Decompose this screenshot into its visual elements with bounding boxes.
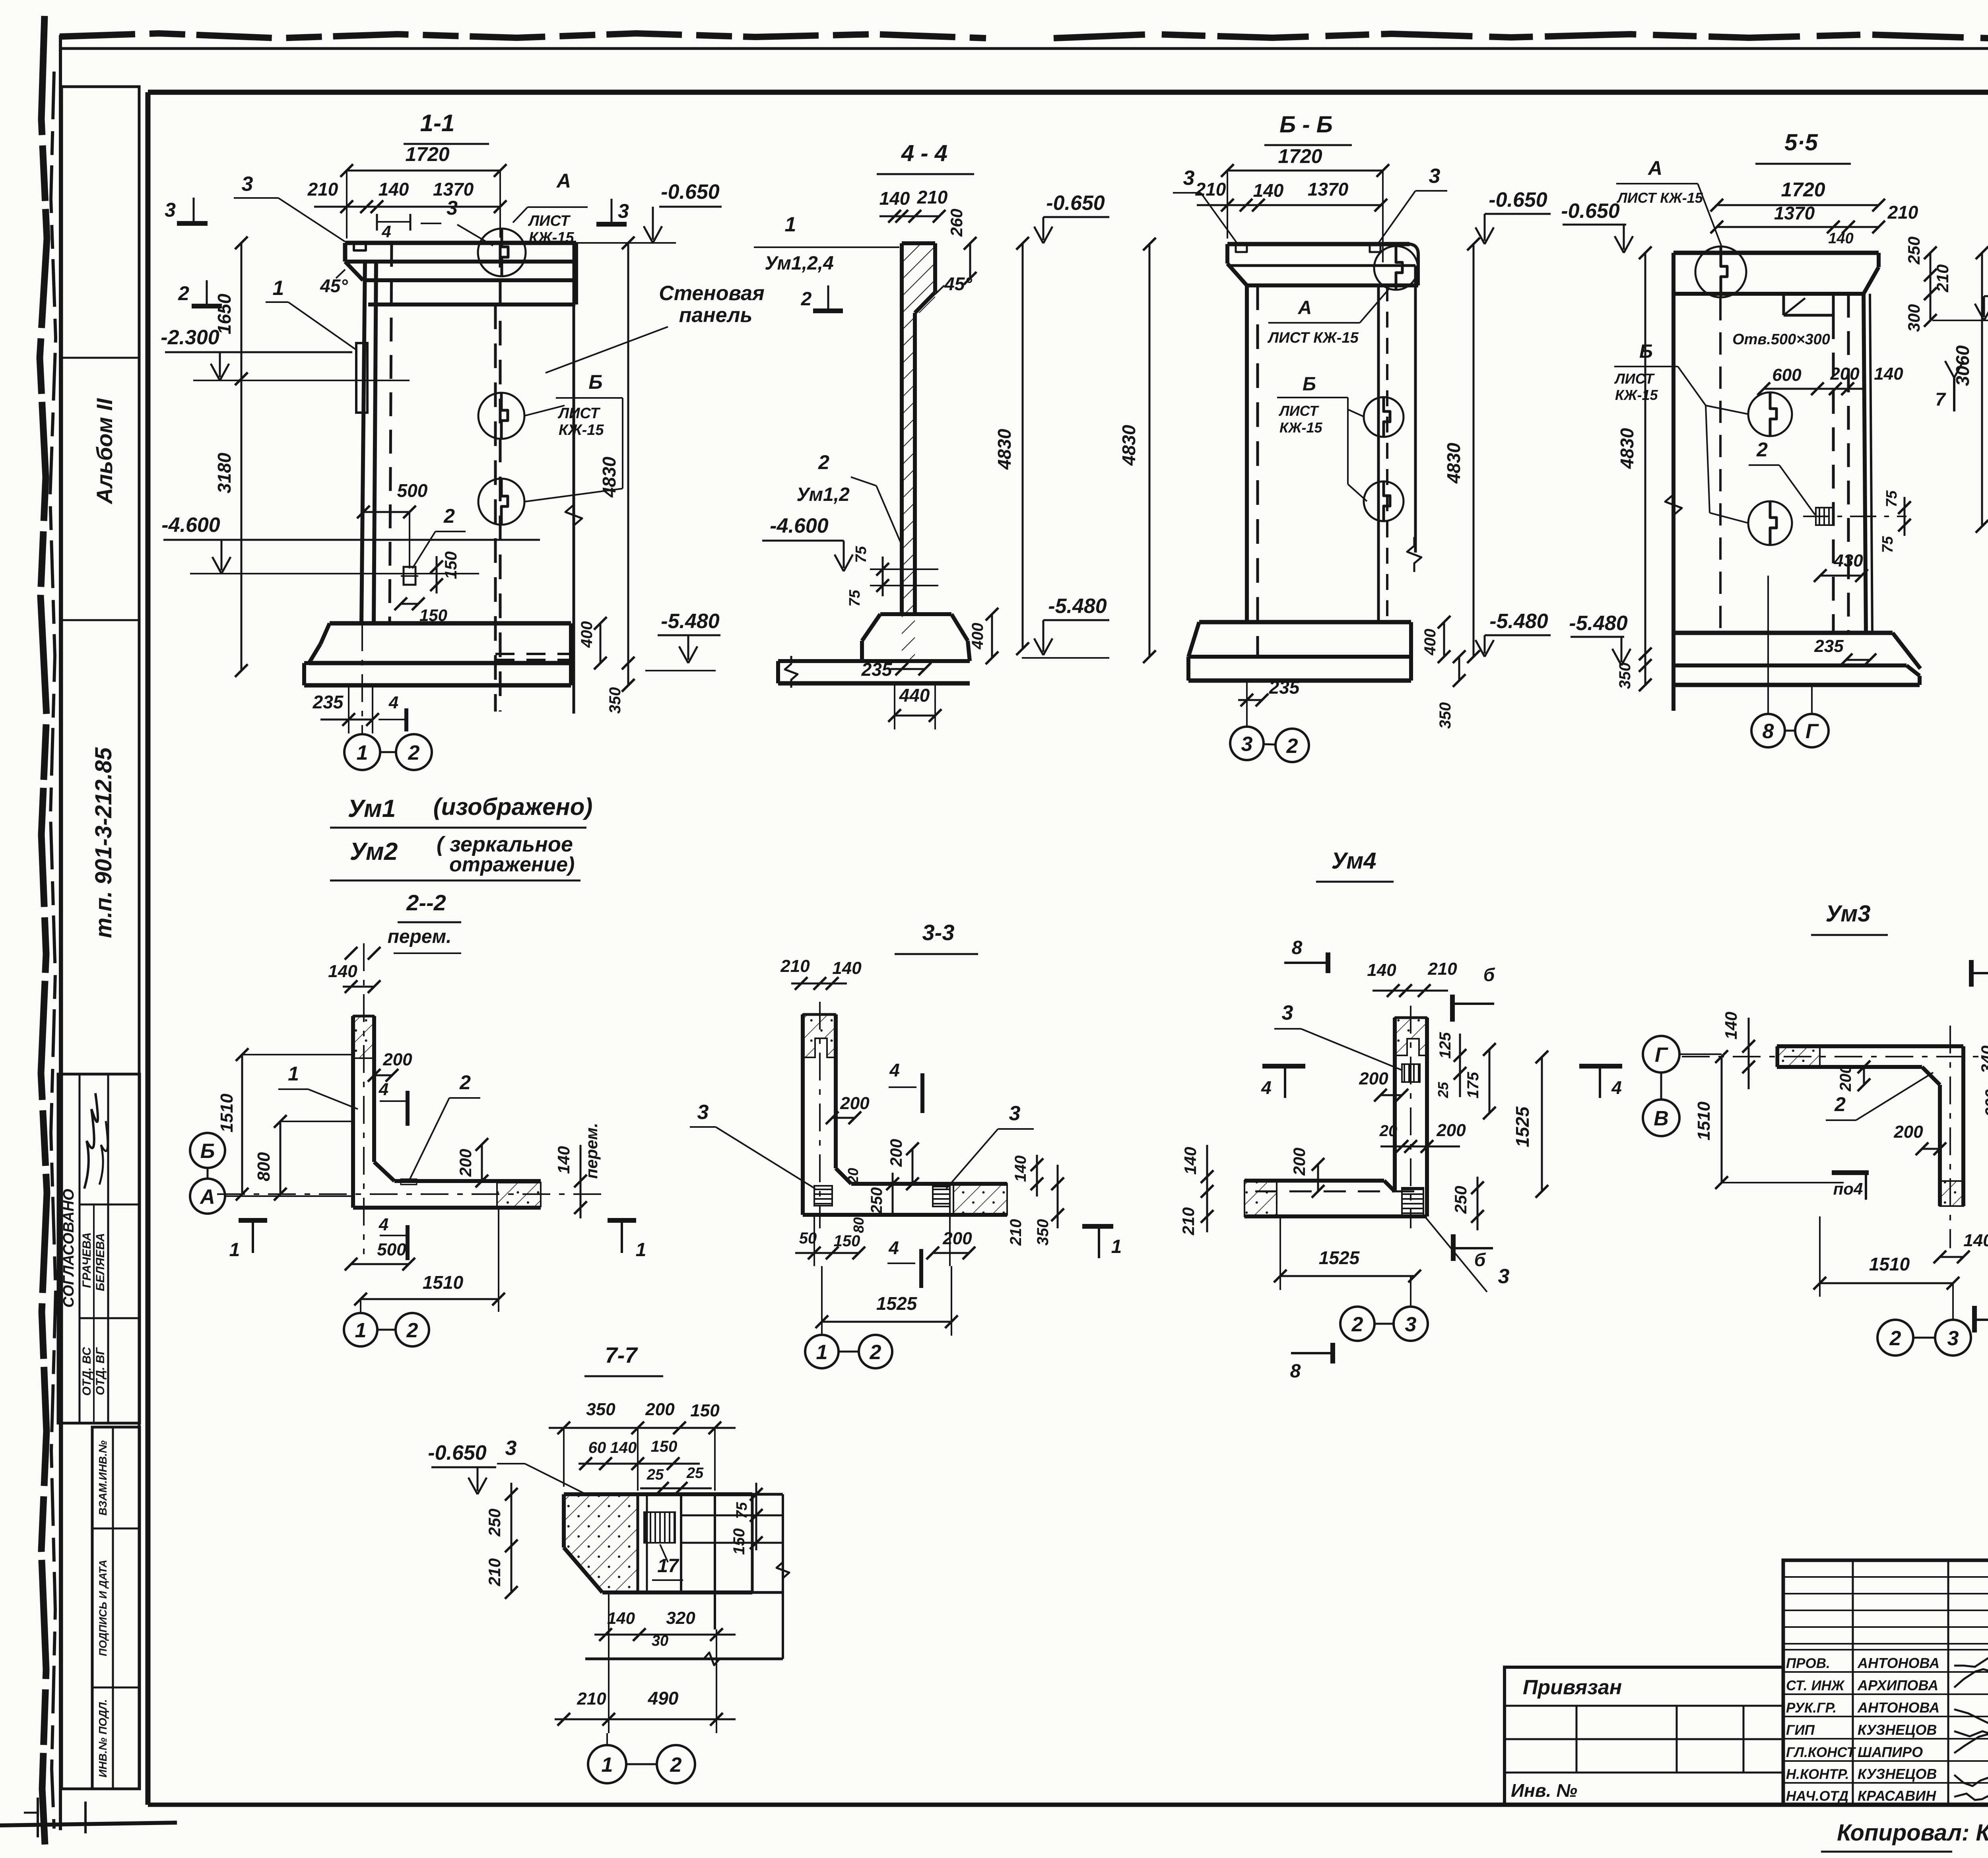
svg-text:ПОДПИСЬ И ДАТА: ПОДПИСЬ И ДАТА: [97, 1560, 109, 1656]
view Um3 right arm verticals: [1940, 1046, 1963, 1206]
view Um4 dim 200 left arm: [1290, 1148, 1324, 1198]
section 1-1 slab outline: [345, 243, 576, 304]
svg-text:60: 60: [588, 1439, 606, 1457]
svg-text:ВЗАМ.ИНВ.№: ВЗАМ.ИНВ.№: [97, 1440, 109, 1515]
section 1-1 dim 235 bottom: [313, 685, 379, 733]
section 5-5 elevation -0.650: [1563, 224, 1626, 226]
svg-text:( зеркальное: ( зеркальное: [437, 832, 573, 856]
svg-text:4830: 4830: [1443, 442, 1464, 484]
svg-text:140: 140: [1722, 1012, 1740, 1040]
title block name rows: [1783, 1650, 1988, 1783]
section B-B dim 4830 left: [1118, 238, 1156, 663]
section B-B callout A label: [1267, 288, 1390, 346]
view Um3 centerlines: [1682, 1026, 1982, 1248]
svg-text:т.п. 901-3-212.85: т.п. 901-3-212.85: [91, 747, 116, 938]
svg-text:панель: панель: [679, 304, 753, 327]
svg-text:140: 140: [1367, 960, 1396, 980]
section 7-7 dims row2 60 140 150: [579, 1438, 700, 1470]
section 5-5 leader 2 detail: [1749, 438, 1815, 515]
svg-text:4830: 4830: [1617, 428, 1637, 469]
section 3-3 mark 4 bottom: [887, 1237, 921, 1288]
svg-text:4: 4: [888, 1237, 899, 1258]
svg-text:1: 1: [273, 277, 284, 300]
svg-text:1720: 1720: [1278, 145, 1322, 167]
section 1-1 elevation -2.300: [165, 351, 352, 353]
section B-B axis bubbles: [1230, 681, 1309, 762]
svg-text:140: 140: [1012, 1156, 1029, 1182]
svg-text:АНТОНОВА: АНТОНОВА: [1857, 1655, 1939, 1671]
svg-text:2: 2: [1286, 735, 1298, 758]
svg-text:140: 140: [610, 1439, 637, 1457]
svg-text:4 - 4: 4 - 4: [901, 140, 947, 166]
section 7-7 dims 210 490 bottom: [555, 1592, 736, 1733]
view Um4 concrete band with notch: [1395, 1018, 1427, 1055]
svg-text:490: 490: [648, 1688, 679, 1709]
svg-text:440: 440: [899, 685, 930, 706]
section 5-5 dim 1720: [1710, 178, 1885, 211]
section 7-7 dims 250 210 left: [485, 1483, 518, 1599]
section 5-5 dim 1370 210: [1710, 202, 1918, 247]
section 2-2 perem label: [345, 926, 461, 960]
section 4-4 leader 2 Um12: [796, 451, 903, 547]
section 5-5 mark 7 arrow: [1935, 361, 1963, 411]
svg-text:4: 4: [379, 1080, 388, 1099]
svg-text:125: 125: [1437, 1032, 1454, 1059]
svg-text:4830: 4830: [1118, 425, 1139, 466]
svg-text:2: 2: [818, 451, 829, 473]
svg-text:200: 200: [382, 1050, 412, 1069]
svg-text:4: 4: [379, 1215, 388, 1234]
svg-text:-5.480: -5.480: [1048, 595, 1107, 618]
view Um4 dim 1525 bottom: [1274, 1216, 1421, 1290]
svg-text:7-7: 7-7: [605, 1342, 639, 1367]
svg-text:1: 1: [816, 1341, 828, 1364]
view Um4 mark 8 top: [1284, 937, 1328, 973]
section 3-3 dim 200 rotated: [887, 1139, 919, 1190]
svg-text:-0.650: -0.650: [661, 180, 720, 204]
svg-text:Стеновая: Стеновая: [659, 282, 764, 305]
svg-text:350: 350: [1034, 1219, 1052, 1246]
section B-B elevation -5.480: [1485, 634, 1551, 636]
svg-text:ШАПИРО: ШАПИРО: [1858, 1744, 1923, 1760]
svg-text:-5.480: -5.480: [1569, 612, 1628, 635]
section 5-5 stem verticals: [1833, 294, 1872, 633]
section 1-1 elevation -5.480: [658, 634, 720, 636]
svg-text:Г: Г: [1655, 1043, 1668, 1067]
svg-text:210: 210: [1179, 1207, 1198, 1235]
view Um3 leader 2: [1826, 1073, 1933, 1120]
svg-text:210: 210: [1887, 202, 1918, 223]
svg-text:1: 1: [602, 1753, 613, 1777]
section 5-5 dim 3060: [1952, 246, 1988, 533]
section 4-4 title: [877, 140, 974, 174]
section 1-1 wall panel lines: [495, 243, 574, 714]
section B-B elevation -0.650: [1485, 213, 1551, 215]
svg-text:235: 235: [861, 659, 893, 680]
svg-text:-2.300: -2.300: [161, 326, 219, 349]
section 1-1 dim 500: [357, 480, 428, 568]
svg-text:ГИП: ГИП: [1786, 1722, 1815, 1738]
svg-text:150: 150: [441, 551, 460, 579]
svg-text:1510: 1510: [1869, 1254, 1910, 1274]
section 5-5 recess otv 500x300: [1784, 294, 1833, 315]
view Um3 dim 140 bottom: [1934, 1231, 1988, 1263]
section 4-4 elevation -4.600: [762, 540, 844, 542]
svg-text:КУЗНЕЦОВ: КУЗНЕЦОВ: [1858, 1722, 1937, 1738]
section B-B wall verticals: [1247, 266, 1415, 657]
view Um4 mark 4 right: [1579, 1066, 1622, 1098]
title block outer box: [1783, 1560, 1988, 1805]
svg-text:1720: 1720: [1781, 178, 1825, 201]
svg-text:Г: Г: [1806, 720, 1819, 743]
svg-text:340: 340: [1978, 1045, 1988, 1073]
kopiroval annotation: [1821, 1820, 1988, 1852]
svg-text:250: 250: [1905, 237, 1923, 265]
svg-text:200: 200: [1436, 1121, 1466, 1140]
section 3-3 wall strip: [803, 1014, 836, 1215]
svg-text:200: 200: [840, 1094, 870, 1113]
svg-text:В: В: [1654, 1107, 1669, 1130]
svg-text:1: 1: [636, 1239, 646, 1261]
section 1-1 footing outline: [304, 623, 571, 685]
svg-text:(изображено): (изображено): [433, 793, 593, 820]
svg-text:3: 3: [1009, 1102, 1021, 1125]
svg-text:140: 140: [1253, 180, 1284, 201]
sidebar box divider lines: [62, 358, 139, 620]
section 7-7 dims 75 150 right: [730, 1483, 763, 1555]
view Um3 dim 200 vertical: [1837, 1061, 1870, 1092]
section 7-7 breaks: [696, 1554, 789, 1665]
svg-text:2: 2: [1351, 1313, 1363, 1336]
svg-text:перем.: перем.: [582, 1123, 601, 1179]
section 4-4 column hatch: [902, 243, 935, 614]
view Um4 centerline vertical: [1410, 1006, 1411, 1228]
svg-text:4: 4: [381, 222, 391, 241]
section 1-1 dim 1650: [214, 237, 248, 385]
section 5-5 axis bubbles: [1751, 576, 1829, 747]
svg-text:1: 1: [355, 1319, 367, 1342]
svg-text:А: А: [199, 1185, 215, 1208]
svg-text:ЛИСТ КЖ-15: ЛИСТ КЖ-15: [1267, 330, 1359, 346]
svg-text:300: 300: [1905, 304, 1923, 332]
svg-text:2: 2: [1756, 438, 1768, 461]
section 5-5 callout A label: [1616, 157, 1722, 246]
view Um3 arm outline: [1777, 1046, 1963, 1085]
svg-text:А: А: [556, 170, 571, 192]
section 5-5 dim 4830: [1617, 246, 1682, 672]
svg-text:2: 2: [1834, 1093, 1846, 1115]
view Um3 axis bubbles left: [1643, 1036, 1722, 1136]
svg-text:25: 25: [686, 1465, 704, 1482]
svg-text:200: 200: [887, 1139, 905, 1167]
section 1-1 45 deg chamfer mark: [320, 262, 363, 296]
svg-text:2: 2: [801, 289, 812, 310]
svg-text:210: 210: [485, 1558, 504, 1586]
svg-text:ОТД. ВГ: ОТД. ВГ: [94, 1347, 107, 1395]
section B-B dim 4830 right: [1443, 238, 1480, 663]
section 5-5 elevation -1.410: [1984, 295, 1988, 297]
svg-text:3: 3: [697, 1101, 709, 1124]
section 2-2 dim 140 perem right: [554, 1123, 601, 1218]
section B-B slab top closure notches: [1236, 244, 1380, 252]
section 3-3 right end concrete: [953, 1184, 1007, 1215]
section 2-2 corner and bottom arm: [353, 1162, 541, 1208]
section 4-4 dim 440: [888, 683, 942, 729]
view Um3 title: [1811, 901, 1888, 935]
section 1-1 section mark 3 left: [165, 198, 208, 223]
svg-text:8: 8: [1763, 720, 1774, 743]
svg-text:235: 235: [1269, 677, 1300, 698]
svg-text:-5.480: -5.480: [661, 610, 720, 633]
view Um3 mark po4 left: [1832, 1173, 1869, 1200]
svg-text:Копировал: Корецкая: Копировал: Корецкая: [1837, 1820, 1988, 1846]
svg-text:1720: 1720: [405, 143, 449, 165]
svg-text:перем.: перем.: [388, 926, 452, 947]
svg-text:17: 17: [657, 1555, 679, 1577]
svg-text:250: 250: [1451, 1186, 1470, 1214]
svg-text:140: 140: [554, 1146, 573, 1174]
svg-text:3: 3: [1947, 1327, 1959, 1350]
section 1-1 elevation -4.600: [163, 539, 540, 541]
view Um4 embed plate lower: [1402, 1188, 1423, 1216]
section 7-7 leader 17: [652, 1544, 683, 1580]
svg-text:140: 140: [328, 962, 357, 981]
svg-text:210: 210: [307, 179, 338, 200]
svg-text:500: 500: [397, 480, 428, 501]
svg-text:КЖ-15: КЖ-15: [559, 422, 604, 438]
section 3-3 mark 4 top: [889, 1060, 922, 1113]
section B-B slab outline: [1227, 244, 1418, 285]
section 1-1 leader 1: [266, 277, 356, 350]
svg-text:75: 75: [846, 590, 863, 607]
section 5-5 dims 75 75: [1879, 490, 1911, 553]
svg-text:ИНВ.№ ПОДЛ.: ИНВ.№ ПОДЛ.: [97, 1699, 109, 1777]
view Um3 mark 5 top: [1971, 945, 1988, 987]
section 3-3 dim 200 upper: [826, 1094, 870, 1124]
svg-text:Ум3: Ум3: [1826, 901, 1871, 927]
section 7-7 dims row1 350 200 150: [549, 1400, 736, 1491]
section 1-1 mark 4 bottom: [379, 693, 406, 731]
svg-text:1: 1: [1111, 1236, 1122, 1257]
section 2-2 dim 1510 left: [217, 1048, 353, 1201]
section 4-4 dim 400: [969, 608, 998, 664]
section 2-2 mark 4 top: [379, 1080, 408, 1126]
svg-text:1510: 1510: [217, 1094, 237, 1133]
section 5-5 dims 600 200 140: [1757, 364, 1903, 395]
svg-text:75: 75: [853, 546, 870, 563]
section 1-1 level line -5.480: [645, 670, 716, 671]
svg-text:350: 350: [586, 1400, 615, 1419]
svg-text:1370: 1370: [1774, 203, 1815, 223]
section 7-7 title: [584, 1342, 663, 1376]
svg-text:140: 140: [1963, 1231, 1988, 1250]
svg-text:Ум1,2: Ум1,2: [796, 484, 850, 505]
section B-B dim 235: [1238, 677, 1300, 714]
svg-text:3: 3: [1405, 1313, 1417, 1336]
section 1-1 detail callout A circle: [478, 229, 526, 276]
svg-text:45°: 45°: [944, 273, 972, 294]
section B-B footing outline: [1188, 622, 1411, 681]
svg-text:4: 4: [889, 1060, 900, 1080]
section 5-5 wall outer line: [1672, 253, 1675, 711]
section 4-4 dim 235: [861, 659, 931, 680]
svg-text:3180: 3180: [214, 452, 235, 493]
section 5-5 callout circles B: [1706, 392, 1792, 545]
svg-text:1: 1: [357, 741, 368, 764]
section 3-3 concrete top band with notch: [803, 1014, 836, 1057]
svg-text:КЖ-15: КЖ-15: [529, 229, 574, 246]
svg-text:Н.КОНТР.: Н.КОНТР.: [1786, 1767, 1849, 1782]
svg-text:20: 20: [845, 1168, 861, 1184]
section 1-1 leader 2 small detail: [412, 505, 466, 568]
section 3-3 centerline vertical: [819, 1002, 821, 1228]
svg-text:400: 400: [969, 623, 986, 650]
svg-text:ОТД. ВС: ОТД. ВС: [80, 1346, 93, 1396]
svg-text:260: 260: [947, 209, 966, 237]
view Um4 dims 125 25 175: [1435, 1032, 1496, 1119]
svg-text:1510: 1510: [1694, 1102, 1714, 1140]
svg-text:Привязан: Привязан: [1523, 1676, 1622, 1699]
section 1-1 item 1 embed plate: [356, 343, 367, 413]
view Um3 bottom end concrete: [1940, 1181, 1963, 1206]
section 2-2 mark 4 bottom: [379, 1215, 408, 1260]
section B-B leader 3 left: [1173, 167, 1237, 242]
svg-text:ЛИСТ: ЛИСТ: [1614, 370, 1655, 387]
svg-text:-4.600: -4.600: [770, 514, 829, 537]
section 2-2 dim 800: [254, 1115, 353, 1201]
section 5-5 dim 350: [1616, 648, 1652, 691]
section 7-7 leader 3: [497, 1437, 588, 1495]
section B-B callout circles B: [1364, 397, 1404, 521]
section 2-2 mark 1 right: [608, 1220, 646, 1261]
svg-text:-0.650: -0.650: [1561, 200, 1620, 223]
svg-text:1: 1: [288, 1063, 299, 1085]
section 5-5 title: [1755, 130, 1851, 164]
section 7-7 dims 140 320 lower: [594, 1608, 736, 1649]
section 1-1 level line -4.600: [190, 573, 479, 574]
svg-text:150: 150: [730, 1528, 748, 1555]
svg-text:-0.650: -0.650: [428, 1441, 487, 1464]
svg-text:Инв. №: Инв. №: [1511, 1780, 1577, 1801]
svg-text:-0.650: -0.650: [1489, 188, 1547, 211]
svg-text:4: 4: [388, 693, 398, 712]
svg-text:1650: 1650: [214, 293, 235, 334]
section 1-1 dims 150 150: [394, 551, 460, 625]
section B-B dim 350: [1437, 650, 1466, 729]
svg-text:3: 3: [242, 173, 253, 196]
svg-text:4: 4: [1611, 1077, 1622, 1098]
svg-text:КЖ-15: КЖ-15: [1279, 419, 1323, 436]
view Um3 dim 1510 left: [1694, 1050, 1844, 1189]
section 5-5 embed plate detail: [1803, 508, 1906, 525]
svg-text:200: 200: [942, 1229, 972, 1248]
svg-text:-5.480: -5.480: [1489, 610, 1548, 633]
svg-text:Ум2: Ум2: [350, 838, 398, 865]
section 2-2 wall strip: [353, 1016, 374, 1208]
svg-text:б: б: [1483, 964, 1495, 985]
sidebar stamp boxes vzaim/podpis/inv: [92, 1427, 140, 1789]
section 5-5 dashed panel line left: [1719, 298, 1722, 628]
section 3-3 dim 1525: [815, 1266, 958, 1336]
svg-text:3: 3: [447, 197, 458, 219]
view Um3 dim 140 left: [1722, 1012, 1755, 1089]
svg-text:350: 350: [1616, 663, 1634, 689]
view Um1 Um2 note: [330, 793, 592, 881]
svg-text:ЛИСТ: ЛИСТ: [528, 213, 571, 229]
title block signatures: [1954, 1658, 1988, 1667]
svg-text:отражение): отражение): [449, 853, 575, 876]
section 1-1 axis bubbles: [344, 734, 432, 770]
section 7-7 concrete area: [564, 1494, 638, 1592]
svg-text:Ум1: Ум1: [348, 795, 396, 822]
section 5-5 dim 300: [1905, 287, 1937, 332]
svg-text:600: 600: [1772, 365, 1802, 385]
view Um4 axis bubbles: [1340, 1276, 1428, 1341]
section 1-1 elevation -0.650: [659, 206, 722, 208]
section 2-2 leader 1: [278, 1063, 358, 1109]
svg-text:210: 210: [1195, 179, 1226, 200]
section 5-5 slab outline: [1673, 253, 1879, 294]
svg-text:Отв.500×300: Отв.500×300: [1732, 331, 1830, 348]
section B-B dims 210 140 1370: [1195, 179, 1387, 211]
section 3-3 mark 1 right: [1082, 1226, 1122, 1258]
svg-text:КУЗНЕЦОВ: КУЗНЕЦОВ: [1858, 1766, 1937, 1782]
svg-text:25: 25: [1435, 1082, 1451, 1098]
section 4-4 elevation -5.480: [1043, 619, 1109, 621]
svg-text:4830: 4830: [994, 429, 1015, 470]
section B-B callout circle A: [1374, 246, 1418, 290]
title block roles and names: [1786, 1655, 1939, 1804]
svg-text:2: 2: [459, 1071, 471, 1094]
section B-B break on outer line: [1407, 537, 1421, 572]
svg-text:Б: Б: [200, 1140, 215, 1163]
section 3-3 dims 140 210 350 right: [1007, 1155, 1064, 1246]
svg-text:800: 800: [254, 1152, 274, 1181]
section B-B leader 3 right: [1378, 165, 1447, 244]
svg-text:200: 200: [1830, 364, 1860, 384]
view Um4 leader 3 lower: [1425, 1217, 1527, 1312]
section 2-2 dim 1510 bottom: [354, 1208, 505, 1312]
section 7-7 elevation -0.650: [431, 1466, 496, 1468]
section 1-1 dims 210 140 1370: [307, 179, 507, 213]
section 2-2 concrete top band: [353, 1016, 374, 1058]
svg-text:80: 80: [850, 1217, 867, 1233]
section 1-1 dim 4 gap: [377, 214, 410, 241]
section 1-1 leader 3 left: [234, 173, 345, 242]
svg-text:2: 2: [1889, 1327, 1901, 1350]
svg-text:75: 75: [1883, 490, 1900, 507]
view Um3 axis bubbles bottom: [1877, 1283, 1971, 1356]
view Um4 vertical strip: [1395, 1018, 1427, 1216]
section 2-2 left axis bubbles: [190, 1133, 353, 1214]
section 1-1 level line -2.300: [193, 380, 410, 381]
svg-text:А: А: [1647, 157, 1662, 179]
section 4-4 column outline: [902, 243, 935, 614]
section 2-2 dim 200 upper: [368, 1050, 412, 1082]
svg-text:200: 200: [645, 1400, 675, 1419]
view Um4 title: [1316, 848, 1394, 882]
section 7-7 embed plate: [644, 1512, 675, 1543]
svg-text:1510: 1510: [423, 1272, 464, 1293]
svg-text:1525: 1525: [876, 1293, 918, 1314]
soglasovano block: [58, 1074, 140, 1423]
section 5-5 dims 250 210 right: [1905, 237, 1952, 300]
svg-text:2--2: 2--2: [406, 890, 446, 915]
svg-text:б: б: [1474, 1249, 1486, 1270]
svg-text:140: 140: [879, 188, 910, 209]
section 5-5 dim 235 footing: [1814, 636, 1876, 666]
sidebar outline: [62, 87, 139, 1789]
